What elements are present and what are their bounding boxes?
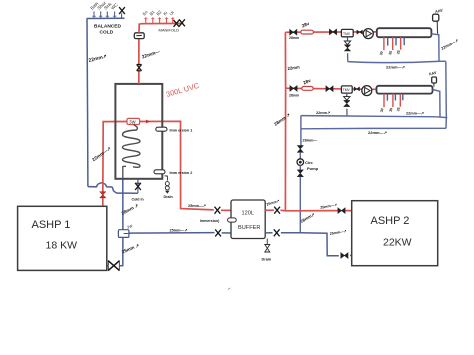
small valve after TMV 1	[357, 30, 362, 34]
coil bottom out to tank bottom	[123, 166, 126, 179]
pipe: riser to DHW manifold	[139, 23, 183, 32]
pipe: circuit 1 flow (red)	[285, 31, 376, 33]
svg-text:120L: 120L	[242, 211, 254, 217]
valve on buffer flow left	[215, 207, 221, 214]
pipe: circuit 2 flow (red)	[286, 88, 377, 89]
svg-text:MANIFOLD: MANIFOLD	[159, 27, 180, 32]
buffer drain valve	[265, 245, 270, 253]
svg-text:BALANCED: BALANCED	[94, 23, 121, 29]
pipe: cold feed to tank with hop over red	[88, 183, 138, 193]
pipe: right return frame vertical	[445, 61, 448, 128]
svg-text:22KW: 22KW	[383, 237, 412, 249]
cold manifold capped branch with X	[119, 7, 125, 18]
svg-text:28mm: 28mm	[289, 93, 299, 97]
valve X on DHW riser	[137, 64, 142, 70]
valve circuit 1 isolation	[290, 29, 297, 35]
svg-text:Drain: Drain	[164, 195, 173, 199]
pipe: manifold 2 right end down to return	[433, 90, 441, 117]
svg-text:Imm ersion 1: Imm ersion 1	[170, 128, 193, 132]
svg-text:22mm—↗: 22mm—↗	[406, 112, 424, 116]
valve circuit 2 second	[326, 86, 333, 92]
DHW manifold branch 5	[168, 9, 175, 23]
manifold 1 loop drops	[384, 37, 404, 50]
TMV circuit 1	[341, 29, 353, 36]
svg-text:22mm—↗: 22mm—↗	[386, 65, 405, 70]
buffer immersion capsule	[228, 218, 237, 222]
tundish / T+P discharge	[164, 176, 173, 199]
coil inside tank	[123, 125, 141, 168]
UFH manifold 1	[377, 28, 432, 37]
pipe: circuit 2 return (blue)	[301, 116, 447, 118]
pipe: coil return down from tank bottom	[122, 179, 124, 230]
valve on cold entry	[135, 183, 141, 190]
pipe: circ pump down to system return	[299, 177, 301, 233]
svg-text:Circ: Circ	[305, 160, 314, 165]
cold manifold branch 1	[89, 1, 99, 19]
TMV box on DHW riser	[134, 33, 144, 39]
AAV circuit 2	[433, 83, 435, 87]
pipe: ASHP1 flow riser (red)	[103, 122, 127, 207]
UFH manifold 2	[377, 86, 433, 94]
pipe: cold entry into tank bottom	[137, 179, 139, 193]
valve at ASHP2 flow	[338, 208, 345, 214]
svg-text:Immersion): Immersion)	[200, 219, 220, 223]
immersion 1 capsule	[156, 127, 167, 131]
stray pen mark	[228, 288, 230, 290]
valve at ASHP2 return	[341, 253, 348, 259]
pipe: circuit 1 return (blue)	[348, 61, 446, 62]
flow arrow on red pipe	[146, 120, 150, 124]
DHW manifold branch 4	[162, 10, 168, 23]
valve buffer right (blue)	[274, 229, 280, 236]
valve circuit 1 second	[329, 29, 336, 35]
valve at ASHP1 return	[108, 261, 119, 271]
TMV circuit 2	[341, 86, 352, 93]
flexible hose capsule circuit 1	[301, 30, 314, 34]
AAV circuit 1	[436, 21, 438, 34]
svg-text:25mm—↗: 25mm—↗	[170, 228, 188, 232]
pipe: heating flow riser (red)	[284, 32, 286, 211]
svg-text:ASHP 2: ASHP 2	[371, 215, 410, 227]
DHW manifold branch 2	[149, 9, 157, 24]
svg-text:28mm—: 28mm—	[303, 139, 318, 143]
pipe: 3-port valve down to ASHP1 return	[120, 237, 123, 265]
tank 300L UVC	[115, 84, 162, 179]
valve circuit 2 isolation	[290, 86, 297, 92]
valve before buffer (blue)	[215, 229, 221, 236]
svg-text:Pump: Pump	[307, 166, 319, 171]
pipe: diverter to buffer flow (red, right then down)	[140, 121, 214, 210]
pump circuit 2	[362, 86, 372, 96]
pipe: buffer return from ASHP2 (blue)	[265, 233, 352, 256]
pipe: DHW riser from tank top (red)	[138, 38, 140, 84]
TMV2 cold drop with motorised valve	[346, 93, 348, 97]
svg-text:22mm↗: 22mm↗	[316, 111, 330, 115]
DHW manifold branch 3	[155, 9, 163, 24]
svg-text:TMV: TMV	[343, 32, 351, 36]
manifold 2 loop drops	[384, 94, 403, 108]
pump circuit 1	[363, 29, 373, 39]
pipe: returns junction down to circ pump	[300, 116, 302, 146]
pipe: valve into ASHP1	[107, 265, 109, 267]
pipe: lower return run	[301, 127, 446, 130]
diverter box 3W on tank	[127, 118, 140, 124]
pipe: cold main riser	[86, 19, 89, 187]
pipe: pump to lower valve	[299, 165, 301, 170]
buffer tank	[231, 200, 265, 239]
flexible hose capsule circuit 2	[302, 87, 313, 91]
svg-text:TMV: TMV	[343, 88, 351, 92]
valve on ASHP1 flow riser (red)	[100, 192, 106, 198]
svg-text:22mm—↗: 22mm—↗	[368, 130, 387, 135]
X marks at DHW manifold end	[174, 20, 180, 27]
cold manifold branch 2	[96, 0, 107, 19]
ASHP 1 unit	[18, 206, 107, 270]
svg-text:28mm: 28mm	[289, 36, 299, 40]
svg-text:25mm—↗: 25mm—↗	[188, 204, 206, 208]
3-port valve box on return	[118, 230, 128, 238]
immersion 2 capsule	[154, 170, 165, 174]
DHW manifold branch 1	[142, 9, 150, 24]
pipe: buffer flow to ASHP2 (red)	[265, 209, 352, 212]
buffer drain pipe	[266, 239, 268, 245]
pipe: valve to buffer	[221, 209, 231, 211]
pipe: valve to buffer left port	[222, 232, 231, 234]
valve buffer right (red)	[274, 207, 280, 214]
svg-text:BUFFER: BUFFER	[238, 225, 260, 231]
cold manifold branch 3	[103, 1, 113, 19]
svg-text:COLD: COLD	[100, 29, 114, 35]
pipe: 3-port valve to buffer (return header)	[129, 232, 215, 235]
small valve after TMV 2	[354, 87, 359, 91]
valve below circ pump	[297, 170, 303, 177]
svg-text:3W: 3W	[129, 119, 135, 124]
svg-text:Cold in: Cold in	[132, 198, 144, 202]
svg-text:18 KW: 18 KW	[46, 240, 78, 252]
pipe: manifold 1 right end down to return	[431, 34, 439, 62]
pipe: balanced cold manifold header	[87, 17, 125, 19]
ASHP 2 unit	[352, 201, 438, 266]
svg-text:Drain: Drain	[262, 258, 272, 262]
svg-text:Imm ersion 2: Imm ersion 2	[170, 171, 193, 175]
valve above circ pump	[297, 146, 303, 153]
svg-text:ASHP 1: ASHP 1	[32, 219, 71, 231]
cold manifold branch 4	[110, 2, 119, 18]
circulating pump	[297, 159, 304, 166]
TMV1 cold drop with motorised valve	[347, 37, 349, 41]
